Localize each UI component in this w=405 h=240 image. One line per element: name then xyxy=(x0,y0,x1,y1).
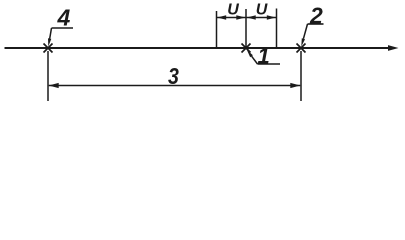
svg-text:3: 3 xyxy=(168,64,179,90)
leader 1 xyxy=(247,50,280,64)
tick middle of U dimensions xyxy=(245,9,247,48)
axis line xyxy=(5,47,391,49)
svg-text:1: 1 xyxy=(258,44,270,69)
point 1 marker xyxy=(242,44,251,53)
svg-text:U: U xyxy=(256,2,268,19)
point 2 marker xyxy=(297,44,306,53)
dimension line U2 xyxy=(247,15,277,19)
svg-text:4: 4 xyxy=(57,5,71,31)
svg-text:U: U xyxy=(227,2,239,19)
dimension line U1 xyxy=(217,15,246,19)
extension line right of dimension 3 xyxy=(300,51,302,101)
point 4 marker xyxy=(44,44,53,53)
tick right of U dimensions xyxy=(276,9,278,49)
dimension line 3 xyxy=(49,83,301,88)
svg-text:2: 2 xyxy=(309,2,323,28)
tick left of U dimensions xyxy=(216,11,218,48)
leader 4 xyxy=(48,28,73,47)
leader 2 xyxy=(301,24,323,47)
extension line left of dimension 3 xyxy=(47,51,49,101)
axis arrowhead xyxy=(388,45,399,51)
